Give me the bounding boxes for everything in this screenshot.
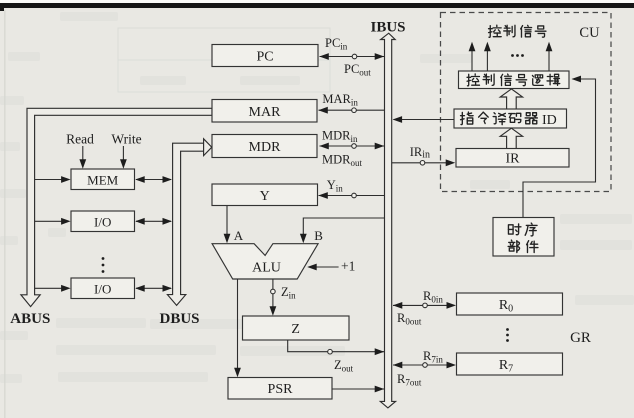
svg-text:DBUS: DBUS [159, 311, 199, 327]
wire I/O 2 to DBUS (bidirectional) [135, 285, 172, 292]
scan corner top-left [0, 3, 4, 11]
wire Y to ALU input A [224, 206, 231, 244]
device I/O 1 [71, 211, 135, 232]
wire ABUS to MEM [35, 176, 71, 183]
scan border top [0, 3, 634, 8]
svg-text:Read: Read [66, 132, 94, 147]
block 时序部件 (timing unit) [493, 218, 554, 257]
svg-text:A: A [234, 228, 244, 243]
wire +1 into ALU [307, 264, 338, 271]
bus IBUS (internal bus, vertical hollow double arrow) [380, 33, 395, 408]
svg-text:ALU: ALU [252, 261, 281, 276]
ellipsis between R0 and R7 [506, 328, 509, 342]
register PC [212, 45, 318, 67]
wire IBUS-R7 (bidirectional gated) [393, 362, 456, 369]
device I/O 2 [71, 278, 135, 299]
memory MEM [71, 169, 135, 190]
wire IBUS to ALU input B [300, 218, 385, 243]
register MAR [212, 100, 317, 123]
label 指令译码器 ID [461, 112, 557, 128]
svg-text:+1: +1 [341, 259, 355, 274]
wire ABUS to I/O 1 [35, 218, 71, 225]
register PSR [228, 378, 332, 400]
ALU [212, 244, 318, 279]
wire PC-IBUS (bidirectional gated) [319, 53, 384, 60]
register Y [212, 184, 318, 206]
wire IBUS-R0 (bidirectional gated) [393, 302, 456, 309]
block 指令译码器 ID (instruction decoder) [454, 109, 567, 128]
svg-text:MEM: MEM [87, 172, 119, 187]
register R0 [457, 293, 563, 315]
hollow arrowhead DBUS into MDR [204, 139, 212, 156]
wire IBUS to IR (gated IRin) [392, 159, 456, 166]
ellipsis between control arrows [511, 54, 524, 57]
label 控制信号 (control signals) [489, 25, 546, 37]
wire IBUS to Y (gated) [318, 192, 384, 199]
label 时序部件 [508, 223, 538, 252]
wire Write to MEM [120, 146, 127, 169]
hollow arrow IR to ID [500, 128, 522, 148]
svg-text:Write: Write [111, 132, 141, 147]
svg-text:PC: PC [256, 50, 273, 65]
ellipsis between I/O boxes [102, 257, 105, 273]
wire MEM to DBUS (bidirectional) [135, 176, 172, 183]
wire IBUS to MAR (gated) [318, 107, 384, 114]
svg-text:IR: IR [506, 152, 521, 167]
wire Read to MEM [79, 146, 86, 169]
control signal output arrows [469, 42, 553, 71]
hollow arrow ID to control logic [500, 89, 522, 109]
wire ALU to Z (gated Zin) [270, 279, 277, 316]
svg-text:ABUS: ABUS [10, 311, 50, 327]
svg-text:Z: Z [291, 322, 300, 337]
register IR [456, 149, 569, 168]
bus ABUS (address bus, hollow, from MAR down-left) [21, 108, 212, 306]
wire MDR-IBUS (bidirectional gated) [319, 143, 384, 150]
bus DBUS (data bus, hollow, from MDR down) [167, 143, 203, 305]
svg-text:IBUS: IBUS [370, 20, 405, 36]
svg-text:MAR: MAR [249, 105, 282, 120]
wire ABUS to I/O 2 [35, 285, 71, 292]
svg-text:ID: ID [542, 113, 557, 128]
svg-text:GR: GR [570, 330, 591, 346]
control unit CU dashed boundary [441, 13, 612, 192]
label 控制信号逻辑 [467, 74, 560, 86]
wire Z to IBUS (gated Zout) [288, 340, 385, 355]
register Z [243, 316, 350, 340]
svg-text:CU: CU [579, 25, 600, 41]
svg-text:MDR: MDR [249, 140, 282, 155]
svg-text:B: B [314, 228, 323, 243]
svg-text:I/O: I/O [94, 281, 111, 296]
svg-text:PSR: PSR [268, 382, 294, 397]
register MDR [212, 135, 317, 158]
wire timing unit to control logic [523, 76, 596, 218]
svg-text:Y: Y [260, 189, 270, 204]
wire PSR to IBUS [332, 386, 385, 393]
register R7 [457, 353, 563, 375]
wire I/O 1 to DBUS (bidirectional) [135, 218, 172, 225]
wire ID to IBUS [393, 116, 454, 123]
svg-text:I/O: I/O [94, 214, 111, 229]
wire ALU to PSR [234, 279, 241, 377]
block 控制信号逻辑 (control signal logic) [459, 71, 570, 89]
